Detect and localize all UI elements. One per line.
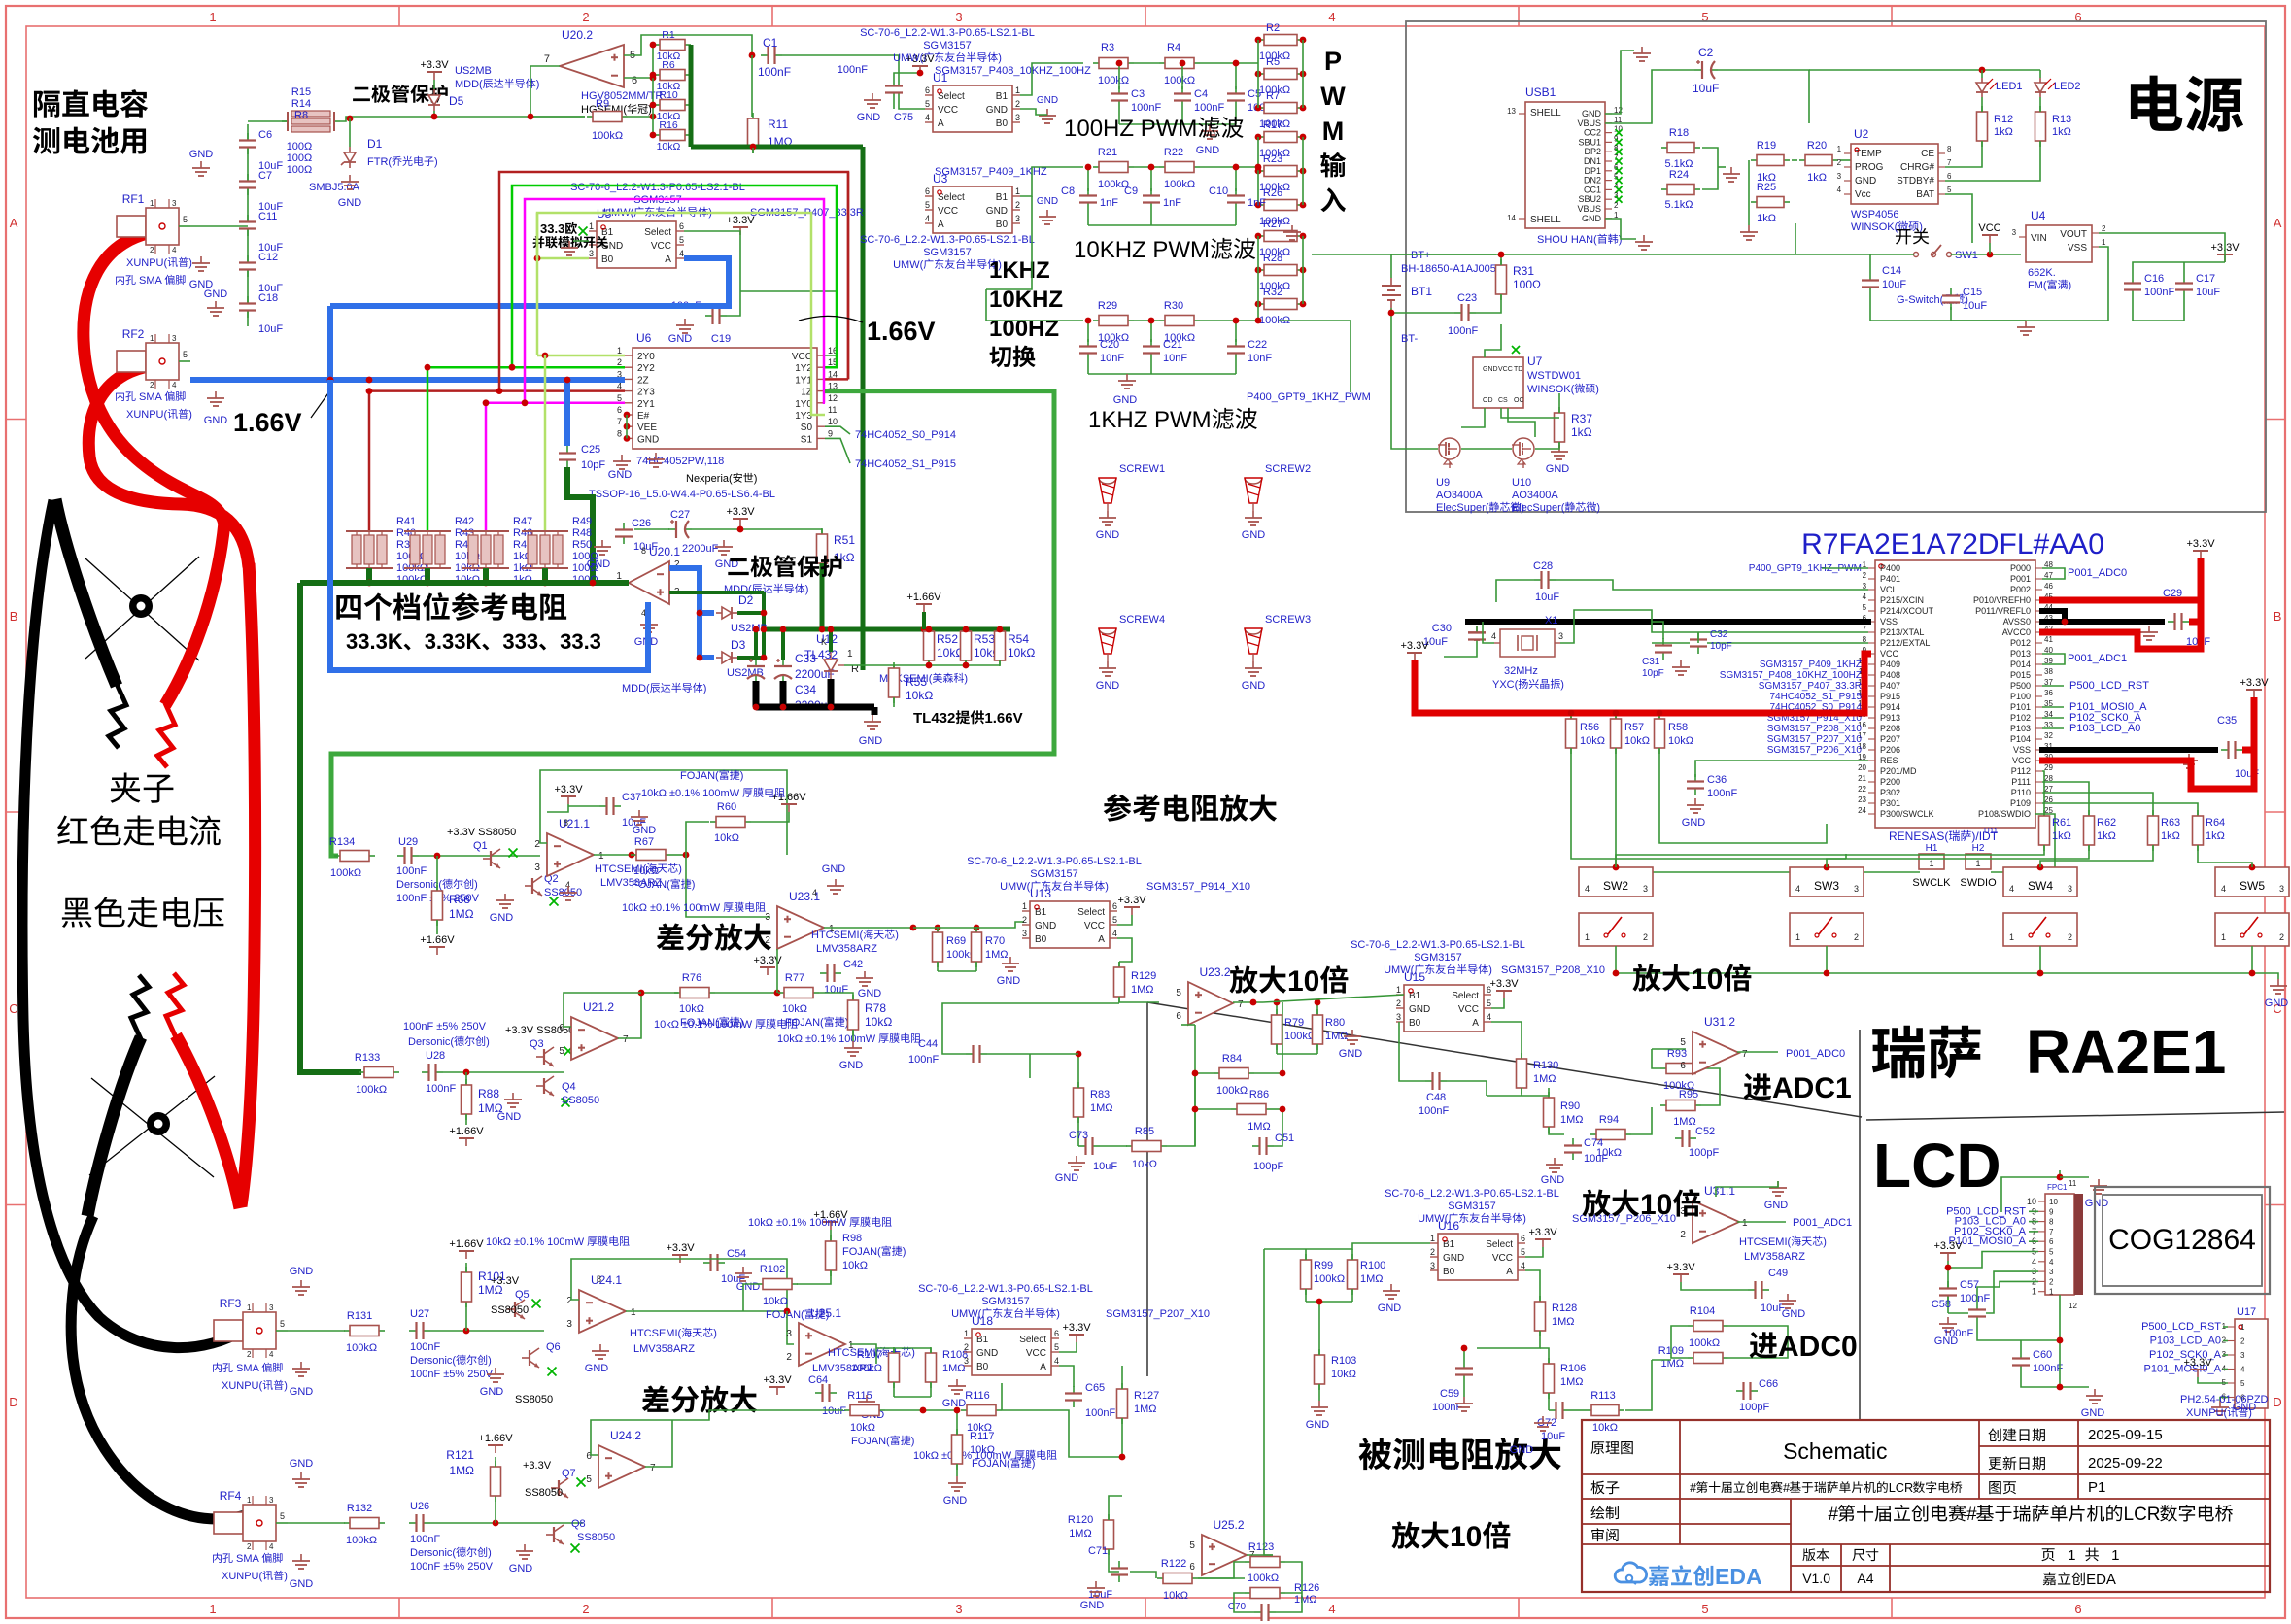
svg-text:SGM3157_P409_1KHZ: SGM3157_P409_1KHZ bbox=[1760, 660, 1862, 670]
svg-text:1: 1 bbox=[1795, 932, 1800, 942]
svg-text:2025-09-15: 2025-09-15 bbox=[2088, 1427, 2163, 1443]
svg-text:GND: GND bbox=[1443, 1253, 1464, 1264]
svg-text:4: 4 bbox=[2009, 884, 2014, 894]
svg-text:C65: C65 bbox=[1085, 1382, 1105, 1394]
svg-text:5: 5 bbox=[925, 200, 930, 210]
svg-text:1Y2: 1Y2 bbox=[795, 363, 812, 374]
svg-text:10KHZ: 10KHZ bbox=[989, 287, 1063, 313]
svg-text:B: B bbox=[2274, 609, 2282, 624]
svg-text:C17: C17 bbox=[2196, 273, 2215, 285]
svg-text:R116: R116 bbox=[965, 1390, 989, 1402]
svg-text:8: 8 bbox=[1947, 145, 1952, 153]
svg-text:P207: P207 bbox=[1880, 734, 1900, 744]
svg-text:3: 3 bbox=[566, 1319, 572, 1330]
svg-text:): ) bbox=[678, 863, 682, 875]
svg-text:2Y2: 2Y2 bbox=[637, 363, 655, 374]
svg-text:6: 6 bbox=[1680, 1061, 1686, 1071]
svg-text:P110: P110 bbox=[2011, 788, 2031, 797]
svg-text:A: A bbox=[1472, 1018, 1479, 1029]
svg-text:P400_GPT9_1KHZ_PWM: P400_GPT9_1KHZ_PWM bbox=[1247, 391, 1371, 403]
svg-text:SCREW2: SCREW2 bbox=[1265, 463, 1311, 475]
svg-text:GND: GND bbox=[2081, 1407, 2105, 1419]
svg-text:1nF: 1nF bbox=[1100, 197, 1118, 209]
svg-text:SGM3157: SGM3157 bbox=[1414, 952, 1462, 964]
svg-text:R86: R86 bbox=[1249, 1089, 1269, 1100]
svg-text:EDA: EDA bbox=[2086, 1572, 2116, 1588]
svg-text:P108/SWDIO: P108/SWDIO bbox=[1978, 809, 2031, 819]
svg-text:R80: R80 bbox=[1325, 1017, 1345, 1029]
svg-text:SHOU HAN(: SHOU HAN( bbox=[1537, 234, 1597, 246]
svg-text:100kΩ: 100kΩ bbox=[330, 867, 361, 879]
svg-text:+3.3V: +3.3V bbox=[421, 59, 450, 71]
svg-text:12: 12 bbox=[2069, 1302, 2077, 1310]
svg-text:C51: C51 bbox=[1275, 1133, 1294, 1144]
svg-text:1: 1 bbox=[1430, 1234, 1435, 1243]
svg-text:U3: U3 bbox=[933, 172, 948, 186]
svg-text:R79: R79 bbox=[1284, 1017, 1304, 1029]
svg-text:S1: S1 bbox=[801, 434, 813, 445]
svg-text:GND: GND bbox=[942, 1398, 967, 1409]
svg-text:GND: GND bbox=[1510, 1444, 1534, 1456]
svg-text:R5: R5 bbox=[1266, 56, 1280, 68]
svg-text:38: 38 bbox=[2044, 667, 2053, 676]
svg-text:GND: GND bbox=[986, 206, 1008, 217]
svg-text:WINSOK(: WINSOK( bbox=[1527, 384, 1575, 395]
svg-text:R128: R128 bbox=[1552, 1303, 1577, 1314]
svg-text:+1.66V: +1.66V bbox=[478, 1433, 513, 1444]
svg-text:4: 4 bbox=[925, 113, 930, 122]
svg-text:1: 1 bbox=[1015, 186, 1020, 196]
svg-text:2: 2 bbox=[1863, 571, 1867, 580]
svg-text:LMV358ARZ: LMV358ARZ bbox=[1744, 1251, 1805, 1263]
svg-text:BT1: BT1 bbox=[1411, 285, 1432, 298]
svg-text:VCC: VCC bbox=[1458, 1004, 1479, 1015]
svg-text:+3.3V: +3.3V bbox=[1401, 640, 1430, 652]
svg-text:U12: U12 bbox=[816, 632, 838, 646]
svg-text:2: 2 bbox=[765, 935, 770, 946]
svg-text:+3.3V: +3.3V bbox=[1529, 1227, 1558, 1238]
svg-text:VCC: VCC bbox=[938, 206, 958, 217]
svg-text:4: 4 bbox=[2032, 1257, 2036, 1267]
svg-text:BT+: BT+ bbox=[1411, 250, 1430, 261]
svg-text:VCC: VCC bbox=[1880, 649, 1899, 659]
svg-text:P201/MD: P201/MD bbox=[1880, 766, 1917, 776]
svg-text:VCC: VCC bbox=[792, 352, 812, 362]
svg-text:SMBJ5.0A: SMBJ5.0A bbox=[309, 182, 360, 193]
svg-text:1MΩ: 1MΩ bbox=[1131, 984, 1154, 996]
svg-text:100nF: 100nF bbox=[1131, 102, 1161, 114]
svg-text:U7: U7 bbox=[1527, 355, 1543, 368]
svg-text:VCC: VCC bbox=[2012, 756, 2032, 765]
svg-text:GND: GND bbox=[587, 558, 611, 570]
svg-text:R58: R58 bbox=[1668, 722, 1688, 733]
svg-text:1Y3: 1Y3 bbox=[795, 411, 812, 422]
svg-text:R22: R22 bbox=[1164, 147, 1183, 158]
svg-text:2Y1: 2Y1 bbox=[637, 399, 655, 410]
svg-text:TD: TD bbox=[1514, 366, 1522, 373]
svg-text:4: 4 bbox=[1112, 929, 1117, 938]
svg-text:2: 2 bbox=[1837, 158, 1842, 167]
svg-text:C31: C31 bbox=[1642, 657, 1660, 667]
svg-text:VCC: VCC bbox=[651, 241, 671, 252]
svg-text:SGM3157_P408_10KHZ_100HZ: SGM3157_P408_10KHZ_100HZ bbox=[1720, 670, 1862, 681]
svg-text:2: 2 bbox=[247, 1350, 252, 1359]
svg-text:): ) bbox=[1105, 881, 1109, 893]
svg-text:R2: R2 bbox=[1266, 22, 1280, 34]
svg-text:1kΩ: 1kΩ bbox=[2206, 830, 2225, 842]
svg-text:C75: C75 bbox=[894, 112, 913, 123]
svg-text:U26: U26 bbox=[410, 1501, 429, 1512]
svg-text:Q6: Q6 bbox=[546, 1341, 561, 1353]
svg-text:5: 5 bbox=[280, 1319, 285, 1329]
svg-text:U27: U27 bbox=[410, 1308, 429, 1320]
svg-text:U31.1: U31.1 bbox=[1704, 1184, 1735, 1198]
svg-text:GND: GND bbox=[736, 1281, 761, 1293]
svg-text:P104: P104 bbox=[2010, 734, 2031, 744]
svg-text:P002: P002 bbox=[2010, 585, 2031, 594]
svg-text:BT-: BT- bbox=[1401, 333, 1418, 345]
svg-text:C66: C66 bbox=[1759, 1378, 1778, 1390]
svg-text:BAT: BAT bbox=[1916, 189, 1934, 200]
svg-text:2: 2 bbox=[2102, 224, 2106, 233]
svg-text:XUNPU(: XUNPU( bbox=[2186, 1407, 2228, 1419]
svg-text:2: 2 bbox=[1854, 932, 1859, 942]
svg-text:A4: A4 bbox=[1857, 1571, 1873, 1586]
svg-text:100pF: 100pF bbox=[1253, 1161, 1283, 1172]
svg-text:P212/EXTAL: P212/EXTAL bbox=[1880, 638, 1930, 648]
svg-text:R78: R78 bbox=[865, 1001, 886, 1015]
svg-text:SGM3157: SGM3157 bbox=[1448, 1201, 1496, 1212]
svg-text:): ) bbox=[998, 52, 1002, 64]
svg-text:P500_LCD_RST: P500_LCD_RST bbox=[2069, 680, 2149, 692]
svg-text:R1: R1 bbox=[662, 29, 675, 41]
svg-text:SBU2: SBU2 bbox=[1579, 194, 1602, 204]
svg-text:12: 12 bbox=[828, 393, 838, 403]
svg-text:2Y0: 2Y0 bbox=[637, 352, 655, 362]
svg-text:5: 5 bbox=[183, 215, 188, 224]
svg-text:5: 5 bbox=[925, 99, 930, 109]
svg-text:1MΩ: 1MΩ bbox=[449, 907, 474, 921]
svg-text:C12: C12 bbox=[258, 252, 278, 263]
svg-text:10: 10 bbox=[1450, 1521, 1482, 1553]
svg-text:P214/XCOUT: P214/XCOUT bbox=[1880, 606, 1934, 616]
svg-text:AVCC0: AVCC0 bbox=[2002, 627, 2031, 637]
svg-text:4: 4 bbox=[2221, 884, 2226, 894]
svg-text:C9: C9 bbox=[1124, 186, 1138, 197]
svg-text:LCR: LCR bbox=[1889, 1480, 1914, 1495]
svg-text:1: 1 bbox=[1742, 1218, 1748, 1229]
svg-text:U21.2: U21.2 bbox=[583, 1000, 614, 1014]
svg-text:10: 10 bbox=[828, 417, 838, 426]
svg-text:74HC4052PW,118: 74HC4052PW,118 bbox=[636, 456, 724, 467]
svg-text:3: 3 bbox=[2279, 884, 2284, 894]
svg-text:2: 2 bbox=[2240, 1337, 2245, 1346]
svg-text:GND: GND bbox=[497, 1111, 522, 1123]
svg-text:RES: RES bbox=[1880, 756, 1898, 765]
svg-text:R67: R67 bbox=[634, 836, 654, 848]
svg-text:10kΩ: 10kΩ bbox=[1331, 1369, 1356, 1380]
svg-text:100nF: 100nF bbox=[2033, 1363, 2063, 1374]
svg-text:GND: GND bbox=[338, 197, 362, 209]
svg-text:R102: R102 bbox=[760, 1264, 785, 1275]
svg-text:P103_LCD_A0: P103_LCD_A0 bbox=[2069, 723, 2140, 734]
svg-text:SS8050: SS8050 bbox=[515, 1394, 553, 1405]
svg-text:D: D bbox=[9, 1395, 17, 1409]
svg-text:R25: R25 bbox=[1757, 182, 1776, 193]
svg-text:10: 10 bbox=[2049, 1198, 2058, 1206]
svg-text:5: 5 bbox=[1947, 186, 1952, 194]
svg-text:D: D bbox=[2273, 1395, 2281, 1409]
svg-text:): ) bbox=[911, 1347, 915, 1359]
svg-text:4: 4 bbox=[1863, 592, 1867, 601]
svg-text:1: 1 bbox=[209, 10, 216, 24]
svg-text:C60: C60 bbox=[2033, 1349, 2052, 1361]
svg-text:): ) bbox=[486, 1036, 490, 1048]
svg-text:R131: R131 bbox=[347, 1310, 372, 1322]
svg-text:1nF: 1nF bbox=[1163, 197, 1181, 209]
svg-text:R7: R7 bbox=[1266, 90, 1280, 102]
svg-text:10uF: 10uF bbox=[824, 984, 848, 996]
svg-text:5: 5 bbox=[2240, 1379, 2245, 1388]
svg-text:6: 6 bbox=[1176, 1011, 1181, 1022]
svg-text:Vcc: Vcc bbox=[1855, 189, 1871, 200]
svg-text:1KHZ: 1KHZ bbox=[989, 257, 1050, 284]
svg-text:D1: D1 bbox=[367, 137, 383, 151]
svg-text:1KHZ PWM: 1KHZ PWM bbox=[1088, 407, 1212, 433]
svg-text:FOJAN(: FOJAN( bbox=[842, 1246, 881, 1258]
svg-text:2: 2 bbox=[617, 357, 622, 367]
svg-text:2025-09-22: 2025-09-22 bbox=[2088, 1455, 2163, 1472]
svg-text:+3.3V: +3.3V bbox=[727, 506, 756, 518]
svg-text:MDD(: MDD( bbox=[622, 683, 650, 694]
svg-text:20: 20 bbox=[1858, 763, 1866, 772]
svg-text:): ) bbox=[713, 1328, 717, 1339]
svg-text:FM(: FM( bbox=[2028, 280, 2047, 291]
svg-text:R94: R94 bbox=[1599, 1114, 1619, 1126]
svg-text:VCC: VCC bbox=[1084, 921, 1105, 931]
svg-text:GND: GND bbox=[290, 1386, 314, 1398]
svg-text:3: 3 bbox=[172, 334, 177, 343]
svg-text:SC-70-6_L2.2-W1.3-P0.65-LS2.1-: SC-70-6_L2.2-W1.3-P0.65-LS2.1-BL bbox=[1351, 939, 1525, 951]
svg-text:H1: H1 bbox=[1926, 843, 1938, 854]
svg-text:): ) bbox=[1560, 679, 1564, 691]
svg-text:1MΩ: 1MΩ bbox=[449, 1464, 474, 1477]
svg-text:R13: R13 bbox=[2052, 114, 2071, 125]
svg-text:SS8050: SS8050 bbox=[525, 1487, 563, 1499]
svg-text:R47: R47 bbox=[513, 516, 532, 527]
svg-text:P500_LCD_RST: P500_LCD_RST bbox=[2141, 1321, 2221, 1333]
svg-text:): ) bbox=[1056, 1308, 1060, 1320]
svg-text:D2: D2 bbox=[738, 593, 754, 607]
svg-text:4: 4 bbox=[679, 249, 684, 258]
svg-text:1: 1 bbox=[2100, 1547, 2120, 1564]
svg-text:SCREW4: SCREW4 bbox=[1119, 614, 1165, 626]
svg-text:P409: P409 bbox=[1880, 660, 1900, 669]
svg-text:GND: GND bbox=[1096, 529, 1120, 541]
svg-text:A: A bbox=[2274, 216, 2282, 230]
svg-text:SW3: SW3 bbox=[1814, 879, 1839, 893]
svg-text:P012: P012 bbox=[2010, 638, 2031, 648]
svg-text:SC-70-6_L2.2-W1.3-P0.65-LS2.1-: SC-70-6_L2.2-W1.3-P0.65-LS2.1-BL bbox=[918, 1283, 1093, 1295]
svg-text:3: 3 bbox=[1396, 1012, 1401, 1022]
svg-text:11: 11 bbox=[2069, 1179, 2077, 1188]
svg-text:GND: GND bbox=[1242, 529, 1266, 541]
svg-text:GND: GND bbox=[1541, 1174, 1565, 1186]
svg-text:XUNPU(: XUNPU( bbox=[222, 1380, 263, 1392]
svg-text:1kΩ: 1kΩ bbox=[1757, 213, 1776, 224]
svg-text:100pF: 100pF bbox=[1689, 1147, 1719, 1159]
svg-text:GND: GND bbox=[608, 469, 633, 481]
svg-text:1: 1 bbox=[1837, 145, 1842, 153]
svg-text:C19: C19 bbox=[711, 333, 731, 345]
svg-text:2Z: 2Z bbox=[637, 375, 649, 386]
svg-text:2: 2 bbox=[1614, 201, 1619, 210]
svg-text:100nF: 100nF bbox=[838, 64, 868, 76]
svg-text:2: 2 bbox=[2279, 932, 2284, 942]
svg-text:P100: P100 bbox=[2010, 692, 2031, 701]
svg-text:+3.3V: +3.3V bbox=[1118, 895, 1147, 906]
svg-text:C32: C32 bbox=[1710, 629, 1728, 640]
svg-text:1MΩ: 1MΩ bbox=[1134, 1404, 1157, 1415]
svg-text:6: 6 bbox=[2074, 1602, 2081, 1616]
svg-text:R107: R107 bbox=[857, 1349, 882, 1361]
svg-text:SS8050: SS8050 bbox=[562, 1095, 599, 1106]
svg-text:): ) bbox=[188, 257, 192, 269]
svg-text:P103: P103 bbox=[2010, 724, 2031, 733]
svg-text:SGM3157: SGM3157 bbox=[981, 1296, 1030, 1307]
svg-text:R130: R130 bbox=[1533, 1060, 1558, 1071]
svg-text:C22: C22 bbox=[1248, 339, 1267, 351]
svg-text:1: 1 bbox=[1585, 932, 1590, 942]
svg-text:P407: P407 bbox=[1880, 681, 1900, 691]
svg-text:CE: CE bbox=[1921, 149, 1934, 159]
svg-text:): ) bbox=[2069, 280, 2072, 291]
svg-text:U29: U29 bbox=[398, 836, 418, 848]
svg-text:R100: R100 bbox=[1360, 1260, 1385, 1271]
svg-text:3: 3 bbox=[2012, 228, 2017, 237]
svg-text:5.1kΩ: 5.1kΩ bbox=[1665, 199, 1693, 211]
svg-text:10uF: 10uF bbox=[1541, 1431, 1565, 1442]
svg-text:100nF: 100nF bbox=[1943, 1328, 1973, 1339]
svg-text:1MΩ: 1MΩ bbox=[1069, 1528, 1092, 1539]
svg-text:3: 3 bbox=[955, 1602, 962, 1616]
svg-text:100nF: 100nF bbox=[410, 1341, 440, 1353]
svg-text:P215/XCIN: P215/XCIN bbox=[1880, 595, 1924, 605]
svg-text:100kΩ: 100kΩ bbox=[346, 1342, 377, 1354]
svg-text:C2: C2 bbox=[1698, 46, 1714, 59]
svg-text:+3.3V: +3.3V bbox=[1063, 1322, 1092, 1334]
svg-text:9: 9 bbox=[2049, 1207, 2054, 1216]
svg-text:OC: OC bbox=[1514, 397, 1524, 404]
svg-text:SHELL: SHELL bbox=[1530, 108, 1561, 118]
svg-text:B0: B0 bbox=[1035, 934, 1047, 945]
svg-text:LED1: LED1 bbox=[1996, 81, 2023, 92]
svg-text:C57: C57 bbox=[1960, 1279, 1979, 1291]
svg-text:41: 41 bbox=[2044, 635, 2053, 644]
svg-text:#: # bbox=[1690, 1480, 1697, 1495]
svg-text:): ) bbox=[692, 879, 696, 891]
svg-text:P302: P302 bbox=[1880, 788, 1900, 797]
svg-text:GND: GND bbox=[839, 1060, 864, 1071]
svg-text:A: A bbox=[938, 118, 944, 129]
svg-text:R52: R52 bbox=[937, 632, 958, 646]
svg-text:LED2: LED2 bbox=[2054, 81, 2081, 92]
svg-text:1: 1 bbox=[247, 1303, 252, 1312]
svg-text:B1: B1 bbox=[996, 192, 1009, 203]
svg-text:E#: E# bbox=[637, 411, 650, 422]
svg-text:XUNPU(: XUNPU( bbox=[126, 409, 168, 421]
svg-text:GND: GND bbox=[1582, 109, 1602, 118]
svg-text:U15: U15 bbox=[1404, 970, 1425, 984]
svg-text:1nF: 1nF bbox=[1248, 197, 1266, 209]
svg-text:R104: R104 bbox=[1690, 1305, 1715, 1317]
svg-text:10nF: 10nF bbox=[1163, 353, 1187, 364]
svg-text:R8: R8 bbox=[294, 110, 308, 121]
svg-text:74HC4052_S1_P915: 74HC4052_S1_P915 bbox=[1770, 692, 1863, 702]
svg-text:GND: GND bbox=[1035, 921, 1056, 931]
svg-text:): ) bbox=[1488, 964, 1492, 976]
svg-text:GND: GND bbox=[1782, 1308, 1806, 1320]
svg-text:XUNPU(: XUNPU( bbox=[222, 1571, 263, 1582]
svg-text:U20.2: U20.2 bbox=[562, 28, 593, 42]
svg-text:SGM3157_P409_1KHZ: SGM3157_P409_1KHZ bbox=[935, 166, 1047, 178]
svg-text:FOJAN(: FOJAN( bbox=[851, 1436, 890, 1447]
svg-text:SC-70-6_L2.2-W1.3-P0.65-LS2.1-: SC-70-6_L2.2-W1.3-P0.65-LS2.1-BL bbox=[860, 27, 1035, 39]
svg-text:14: 14 bbox=[1507, 214, 1516, 222]
svg-text:100kΩ: 100kΩ bbox=[592, 130, 623, 142]
svg-text:RF3: RF3 bbox=[220, 1297, 242, 1310]
svg-text:1: 1 bbox=[209, 1602, 216, 1616]
svg-text:ADC1: ADC1 bbox=[1772, 1072, 1852, 1104]
svg-text:VBUS: VBUS bbox=[1578, 118, 1602, 128]
svg-text:9: 9 bbox=[828, 428, 833, 438]
svg-text:5: 5 bbox=[1487, 998, 1491, 1008]
svg-text:1: 1 bbox=[1015, 85, 1020, 95]
svg-text:R6: R6 bbox=[662, 59, 675, 71]
svg-text:AO3400A: AO3400A bbox=[1512, 490, 1558, 501]
svg-text:5: 5 bbox=[1189, 1540, 1195, 1551]
svg-text:10kΩ: 10kΩ bbox=[679, 1003, 704, 1015]
svg-text:C21: C21 bbox=[1163, 339, 1182, 351]
svg-text:R3: R3 bbox=[1101, 42, 1114, 53]
svg-text:10kΩ: 10kΩ bbox=[850, 1422, 875, 1434]
svg-text:100kΩ: 100kΩ bbox=[1164, 179, 1195, 190]
svg-text:2: 2 bbox=[582, 1602, 589, 1616]
svg-text:10kΩ: 10kΩ bbox=[714, 832, 739, 844]
svg-text:GND: GND bbox=[1582, 214, 1602, 223]
svg-text:FTR(: FTR( bbox=[367, 156, 392, 168]
svg-text:SGM3157_P208_X10: SGM3157_P208_X10 bbox=[1501, 964, 1605, 976]
svg-text:4: 4 bbox=[1585, 884, 1590, 894]
svg-text:R132: R132 bbox=[347, 1503, 372, 1514]
svg-text:100kΩ: 100kΩ bbox=[1284, 1031, 1316, 1042]
svg-text:GND: GND bbox=[668, 333, 693, 345]
svg-text:R7FA2E1A72DFL#AA0: R7FA2E1A72DFL#AA0 bbox=[1801, 528, 2104, 560]
svg-text:ElecSuper(: ElecSuper( bbox=[1512, 502, 1565, 514]
svg-text:10kΩ: 10kΩ bbox=[1163, 1590, 1188, 1602]
svg-text:R24: R24 bbox=[1669, 169, 1689, 181]
svg-text:5: 5 bbox=[1054, 1342, 1059, 1352]
svg-text:1: 1 bbox=[150, 199, 154, 208]
svg-text:C58: C58 bbox=[1932, 1299, 1951, 1310]
svg-text:GND: GND bbox=[1242, 680, 1266, 692]
svg-text:): ) bbox=[754, 473, 758, 485]
svg-text:R70: R70 bbox=[985, 935, 1005, 947]
svg-text:10kΩ ±0.1% 100mW: 10kΩ ±0.1% 100mW bbox=[654, 1019, 755, 1031]
svg-text:R83: R83 bbox=[1090, 1089, 1110, 1100]
svg-text:R57: R57 bbox=[1624, 722, 1644, 733]
svg-text:C18: C18 bbox=[258, 292, 278, 304]
